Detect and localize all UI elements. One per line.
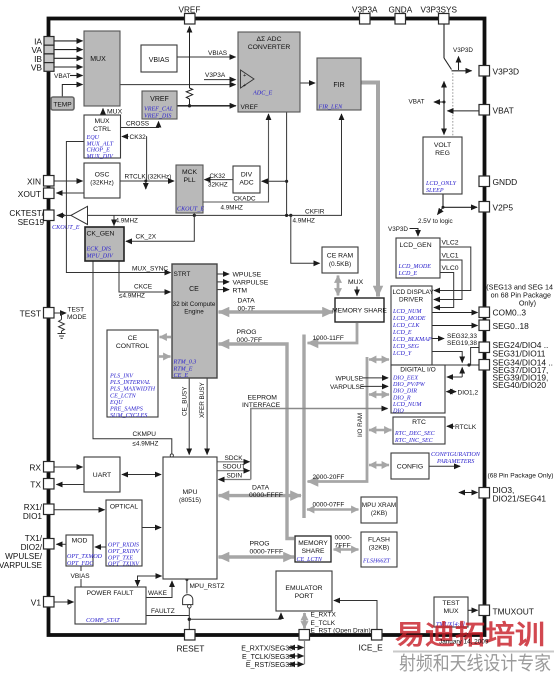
svg-text:V3P3A: V3P3A [352,6,378,15]
svg-text:CONVERTER: CONVERTER [248,44,291,51]
svg-text:MODE: MODE [67,314,87,321]
svg-text:SEG19: SEG19 [18,218,45,227]
svg-text:GNDD: GNDD [493,177,518,187]
svg-text:(32KB): (32KB) [369,545,390,552]
svg-text:DATA: DATA [238,298,256,305]
svg-text:4.9MHZ: 4.9MHZ [116,218,139,225]
svg-text:POWER FAULT: POWER FAULT [87,590,134,597]
svg-text:CONFIGURATION: CONFIGURATION [431,451,481,458]
svg-text:CK_GEN: CK_GEN [87,231,115,238]
svg-text:+: + [243,73,246,79]
svg-text:DIO_PV/PW: DIO_PV/PW [392,382,426,388]
svg-text:CTRL: CTRL [93,126,111,133]
svg-text:MUX: MUX [94,118,110,125]
svg-text:GNDA: GNDA [389,6,413,15]
svg-text:MUX_SYNC: MUX_SYNC [132,266,168,273]
svg-text:TX1/: TX1/ [25,534,43,543]
svg-text:ΔΣ ADC: ΔΣ ADC [257,36,282,43]
svg-text:FIR_LEN: FIR_LEN [318,105,344,111]
svg-text:CONTROL: CONTROL [116,343,149,350]
svg-text:SEG0..18: SEG0..18 [493,321,530,331]
svg-text:ICE_E: ICE_E [359,643,384,653]
svg-text:PARAMETERS: PARAMETERS [436,458,474,465]
svg-text:ADC_E: ADC_E [252,90,272,97]
svg-text:CHOP_E: CHOP_E [87,148,111,154]
svg-text:32KHZ: 32KHZ [208,182,228,189]
svg-text:VARPULSE: VARPULSE [330,384,365,391]
svg-text:SEG19,38: SEG19,38 [447,340,477,347]
svg-text:OPT_TXMOD: OPT_TXMOD [67,554,103,560]
svg-text:EMULATOR: EMULATOR [285,585,322,592]
svg-text:≤4.9MHZ: ≤4.9MHZ [119,293,145,300]
svg-text:WPULSE/: WPULSE/ [5,552,43,561]
svg-text:MUX: MUX [90,56,106,63]
svg-text:PLS_INV: PLS_INV [109,374,134,380]
svg-text:RESET: RESET [177,644,205,654]
svg-text:(2KB): (2KB) [371,510,387,517]
svg-text:VOLT: VOLT [434,142,451,149]
svg-text:LCD_NUM: LCD_NUM [392,309,422,315]
svg-text:CE_LCTN: CE_LCTN [110,393,137,399]
svg-text:RTC_INC_SEC: RTC_INC_SEC [394,438,434,444]
svg-text:COMP_STAT: COMP_STAT [86,617,120,624]
svg-text:CE_E: CE_E [174,373,189,379]
svg-text:(68 Pin Package Only): (68 Pin Package Only) [488,473,554,480]
svg-text:1000-11FF: 1000-11FF [313,335,344,342]
svg-text:0000-FFFF: 0000-FFFF [249,492,283,499]
svg-text:CONFIG: CONFIG [397,464,423,471]
svg-text:CE_BUSY: CE_BUSY [182,386,189,416]
svg-text:MEMORY SHARE: MEMORY SHARE [332,308,387,315]
svg-text:RTM: RTM [233,287,248,294]
svg-text:FIR: FIR [333,82,344,89]
svg-text:DIO_R: DIO_R [392,395,411,401]
svg-text:OPT_FDC: OPT_FDC [67,561,94,567]
svg-text:MUX: MUX [348,279,364,286]
svg-text:CKOUT_E: CKOUT_E [52,224,80,231]
svg-text:REG: REG [435,150,450,157]
svg-text:FAULTZ: FAULTZ [151,608,175,615]
svg-text:0000-7FFF: 0000-7FFF [250,549,284,556]
svg-text:OSC: OSC [95,172,110,179]
svg-text:LCD_CLK: LCD_CLK [392,323,420,329]
svg-text:DIO: DIO [392,409,404,415]
svg-text:LCD_SEG: LCD_SEG [392,344,420,350]
svg-text:V2P5: V2P5 [493,203,514,213]
svg-text:PROG: PROG [237,329,257,336]
svg-text:DIO2/: DIO2/ [21,543,43,552]
svg-text:MPU XRAM: MPU XRAM [362,502,396,509]
svg-text:DRIVER: DRIVER [399,297,424,304]
svg-text:PRE_SAMPS: PRE_SAMPS [109,407,143,413]
svg-text:VARPULSE: VARPULSE [233,280,269,287]
svg-text:LCD_E: LCD_E [398,271,418,277]
svg-text:VREF_DIS: VREF_DIS [144,114,171,120]
svg-text:00-7F: 00-7F [238,306,256,313]
svg-text:CE: CE [128,335,138,342]
svg-text:CK_2X: CK_2X [136,234,157,241]
svg-text:XFER BUSY: XFER BUSY [199,382,206,418]
svg-text:RX1/: RX1/ [24,503,43,512]
svg-text:V3P3D: V3P3D [388,226,408,233]
svg-text:TX: TX [30,480,41,490]
svg-text:MCK: MCK [182,169,198,176]
svg-text:DIGITAL I/O: DIGITAL I/O [400,367,436,374]
svg-text:OPT_RXDIS: OPT_RXDIS [108,543,139,549]
svg-text:WAKE: WAKE [148,590,168,597]
svg-text:TEST: TEST [68,307,85,314]
svg-text:MPU_RSTZ: MPU_RSTZ [190,583,225,590]
svg-text:DIO1,2: DIO1,2 [458,389,479,396]
svg-text:FLASH: FLASH [368,537,390,544]
svg-text:CK32: CK32 [130,134,147,141]
svg-text:SDIN: SDIN [227,473,243,480]
svg-text:VBIAS: VBIAS [149,57,170,64]
svg-text:CKADC: CKADC [234,196,256,203]
svg-text:VBIAS: VBIAS [71,573,91,580]
svg-text:RX: RX [29,463,41,473]
svg-text:RTC: RTC [412,419,426,426]
svg-text:EEPROM: EEPROM [248,395,278,402]
svg-text:SUM_CYCLES: SUM_CYCLES [110,413,147,419]
svg-text:LCD DISPLAY: LCD DISPLAY [393,289,435,296]
svg-text:CKCE: CKCE [134,284,153,291]
svg-text:UART: UART [93,472,111,479]
svg-text:VARPULSE: VARPULSE [0,561,43,570]
svg-text:0000-: 0000- [335,535,352,542]
svg-text:XIN: XIN [27,177,41,187]
svg-text:VREF: VREF [241,104,258,111]
svg-text:MUX: MUX [107,109,123,116]
svg-text:MUX: MUX [443,608,459,615]
svg-text:I/O RAM: I/O RAM [357,413,364,437]
svg-text:CE: CE [189,286,199,293]
svg-text:LCD_ONLY: LCD_ONLY [425,181,457,187]
svg-text:CE_LCTN: CE_LCTN [297,557,323,563]
svg-text:FLSH66ZT: FLSH66ZT [362,559,391,565]
svg-text:V1: V1 [31,598,42,608]
svg-text:EQU: EQU [109,400,123,406]
svg-text:RTM_0.3: RTM_0.3 [173,360,197,366]
svg-text:Engine: Engine [184,309,204,316]
svg-text:(80515): (80515) [179,497,201,504]
svg-text:CK32: CK32 [210,173,226,180]
svg-text:Only): Only) [519,299,536,308]
svg-text:E_RST (Open Drain): E_RST (Open Drain) [311,627,371,634]
svg-text:射频和天线设计专家: 射频和天线设计专家 [399,653,551,674]
svg-text:V3P3A: V3P3A [205,72,226,79]
svg-text:WPULSE: WPULSE [336,375,364,382]
svg-text:0000-07FF: 0000-07FF [313,502,345,509]
svg-text:V3P3D: V3P3D [493,67,520,77]
svg-text:MUX_DIV: MUX_DIV [86,154,115,160]
svg-text:2.5V to logic: 2.5V to logic [418,218,453,225]
svg-text:COM0..3: COM0..3 [493,308,527,318]
svg-text:E_RXTX/SEG38: E_RXTX/SEG38 [241,645,293,652]
svg-text:VB: VB [31,63,43,73]
svg-text:CKFIR: CKFIR [305,209,325,216]
svg-text:ADC: ADC [239,180,253,187]
svg-text:E_TCLK/SEG33: E_TCLK/SEG33 [242,654,293,661]
svg-text:DATA: DATA [252,485,270,492]
svg-text:SEG32,33: SEG32,33 [447,333,477,340]
svg-text:E_RXTX: E_RXTX [311,612,337,619]
svg-text:VLC2: VLC2 [442,240,459,247]
svg-text:LCD_MODE: LCD_MODE [392,316,426,322]
svg-text:MOD: MOD [72,538,88,545]
svg-text:VBAT: VBAT [54,73,71,80]
svg-text:INTERFACE: INTERFACE [242,402,281,409]
svg-text:(0.5KB): (0.5KB) [329,261,351,268]
svg-text:RTCLK (32KHz): RTCLK (32KHz) [125,174,172,181]
svg-text:≤4.9MHZ: ≤4.9MHZ [133,441,159,448]
svg-text:MPU_DIV: MPU_DIV [86,254,115,260]
svg-text:CKMPU: CKMPU [133,431,157,438]
svg-text:4.9MHZ: 4.9MHZ [221,205,244,212]
svg-text:DIO_EEX: DIO_EEX [392,376,418,382]
svg-text:VREF_CAL: VREF_CAL [144,107,174,113]
svg-text:WPULSE: WPULSE [233,272,262,279]
svg-text:PLS_INTERVAL: PLS_INTERVAL [109,380,151,386]
svg-text:LCD_BLKMAP: LCD_BLKMAP [392,337,432,343]
svg-text:VLC0: VLC0 [442,265,459,272]
svg-text:SEG40/DIO20: SEG40/DIO20 [493,380,547,390]
svg-text:MPU: MPU [182,489,197,496]
svg-text:7FFF: 7FFF [335,543,351,550]
svg-text:TMUXOUT: TMUXOUT [493,607,534,617]
svg-text:MUX_ALT: MUX_ALT [86,141,114,147]
svg-text:VBIAS: VBIAS [208,50,228,57]
svg-text:32 bit Compute: 32 bit Compute [173,301,216,308]
svg-text:PLS_MAXWIDTH: PLS_MAXWIDTH [109,387,156,393]
svg-text:RTCLK: RTCLK [455,424,477,431]
svg-text:DIO1: DIO1 [23,512,43,521]
svg-text:DIO_DIR: DIO_DIR [392,389,417,395]
svg-text:XOUT: XOUT [18,189,41,199]
svg-text:LCD_MODE: LCD_MODE [398,264,432,270]
svg-text:(32KHz): (32KHz) [90,180,113,187]
svg-text:OPT_RXINV: OPT_RXINV [108,549,141,555]
svg-text:SDCK: SDCK [225,455,244,462]
svg-text:TEST: TEST [442,600,459,607]
svg-text:E_TCLK: E_TCLK [311,620,336,627]
svg-text:V3P3D: V3P3D [453,47,473,54]
svg-text:LCD_E: LCD_E [392,330,412,336]
svg-text:January 14, 2009: January 14, 2009 [439,639,489,646]
svg-text:ECK_DIS: ECK_DIS [86,247,111,253]
svg-text:TEST: TEST [20,309,41,319]
svg-text:RTC_DEC_SEC: RTC_DEC_SEC [394,431,436,437]
svg-text:VREF: VREF [150,96,169,103]
svg-text:DIO21/SEG41: DIO21/SEG41 [493,494,547,504]
svg-text:CROSS: CROSS [126,121,150,128]
svg-text:LCD_GEN: LCD_GEN [400,242,432,249]
svg-text:易迪拓培训: 易迪拓培训 [395,620,545,650]
svg-text:CE RAM: CE RAM [327,253,354,260]
svg-text:MEMORY: MEMORY [298,540,328,547]
svg-text:CKTEST/: CKTEST/ [9,209,44,218]
svg-text:PORT: PORT [295,593,314,600]
svg-text:000-7FF: 000-7FF [237,337,263,344]
svg-text:+: + [243,83,246,89]
svg-text:2000-20FF: 2000-20FF [313,474,345,481]
svg-text:DIV: DIV [241,172,253,179]
svg-text:VBAT: VBAT [409,99,425,106]
svg-text:OPT_TXINV: OPT_TXINV [108,562,140,568]
svg-text:PROG: PROG [250,541,270,548]
svg-text:SHARE: SHARE [302,548,325,555]
svg-text:E_RST/SEG32: E_RST/SEG32 [246,662,293,669]
svg-text:OPT_TXE: OPT_TXE [108,555,133,561]
svg-text:VBAT: VBAT [493,106,514,116]
svg-text:TEMP: TEMP [53,102,72,109]
svg-text:PLL: PLL [183,177,195,184]
svg-text:LCD_Y: LCD_Y [392,351,412,357]
svg-text:4.9MHZ: 4.9MHZ [293,218,316,225]
svg-text:CKOUT_E: CKOUT_E [177,207,204,213]
svg-text:STRT: STRT [174,271,191,278]
svg-text:RTM_E: RTM_E [173,367,193,373]
svg-text:OPTICAL: OPTICAL [110,504,139,511]
svg-text:SDOUT: SDOUT [223,464,246,471]
svg-text:LCD_NUM: LCD_NUM [392,402,422,408]
svg-text:V3P3SYS: V3P3SYS [421,6,458,15]
svg-text:SLEEP: SLEEP [426,188,444,194]
svg-text:EQU: EQU [86,135,100,141]
svg-text:VLC1: VLC1 [442,253,459,260]
